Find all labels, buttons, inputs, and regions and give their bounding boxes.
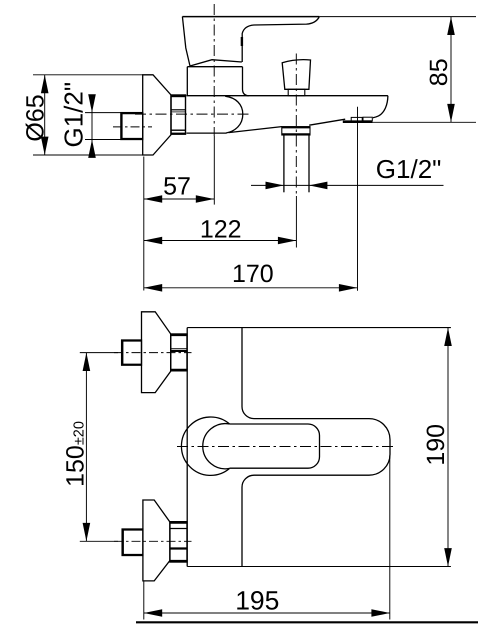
centerline handle axis [213,4,215,136]
bottom border line [136,621,478,623]
svg-text:57: 57 [163,172,191,200]
cartridge cap top edge [187,66,242,68]
centerline wall fitting axis [113,126,152,128]
body right edge upper with fillet [242,328,254,419]
dimension Ø65 [33,75,144,155]
cartridge cap left edge [186,67,188,96]
svg-text:122: 122 [200,215,242,243]
dimension 190 [447,328,449,567]
dimension 170 [144,107,358,291]
handle escutcheon capsule (plan) [254,419,390,476]
top G1/2 fitting (plan) [122,340,142,365]
wall escutcheon (side view) [143,75,171,155]
diverter knob [282,60,310,96]
lever tip crescent outer arc [181,417,229,475]
svg-text:G1/2": G1/2" [376,154,442,184]
bottom wall escutcheon (plan) [143,500,170,581]
dimension G1/2 left [85,96,121,157]
valve capsule right arc (side view) [225,96,243,133]
shower outlet pipe [284,135,309,192]
svg-text:85: 85 [425,58,453,86]
body bottom edge + 190 extension [187,566,451,568]
svg-text:G1/2": G1/2" [59,82,89,148]
spout end curve [373,96,388,118]
spout underside slant left segment [229,127,282,133]
top connection nut (plan) [171,334,187,371]
dimension 195 [144,456,390,620]
valve capsule bottom edge [186,132,226,134]
svg-text:195: 195 [235,585,279,615]
extension line 122 right (pipe axis continued) [295,196,297,248]
body right edge lower with fillet [242,475,254,566]
dimension G1/2 shower pipe [251,184,444,186]
shower hose collar [282,127,310,135]
dimension 122 [144,240,296,242]
bottom G1/2 fitting (plan) [122,529,143,556]
svg-text:170: 170 [232,260,274,288]
extension line 57 right (handle axis continued) [213,136,215,205]
handle lever underside right taper and neck [242,17,319,62]
lever tip crescent inner arc [203,424,230,469]
body top edge + 190 extension [187,327,451,329]
body top edge (side view) [186,95,388,97]
dimension 85 [343,17,476,123]
G1/2 wall fitting (side view) [121,113,143,140]
centerline body axis [135,113,249,115]
body left edge (top view of faucet) [186,328,188,567]
extension line from handle top to 85 dim [319,16,476,18]
bottom connection nut (plan) [170,522,187,562]
dimension 57 [144,157,214,291]
connection nut (side view) [171,95,186,134]
centerline shower pipe axis [295,54,297,197]
centerline bottom connection axis [80,540,192,542]
svg-text:190: 190 [422,424,450,466]
spout underside slant right segment [309,119,345,125]
centerline top connection axis [80,352,192,354]
handle lever left edge [182,17,190,66]
top wall escutcheon (plan) [142,312,171,393]
svg-text:Ø65: Ø65 [21,94,49,141]
dimension 150 [85,353,87,542]
centerline lever axis [177,446,397,448]
cartridge cap right edge with fillet [243,67,249,96]
handle lever bottom edge [190,60,242,66]
lever capsule (plan) [230,424,320,468]
handle lever top edge (side view) [182,16,319,18]
aerator [343,117,373,122]
